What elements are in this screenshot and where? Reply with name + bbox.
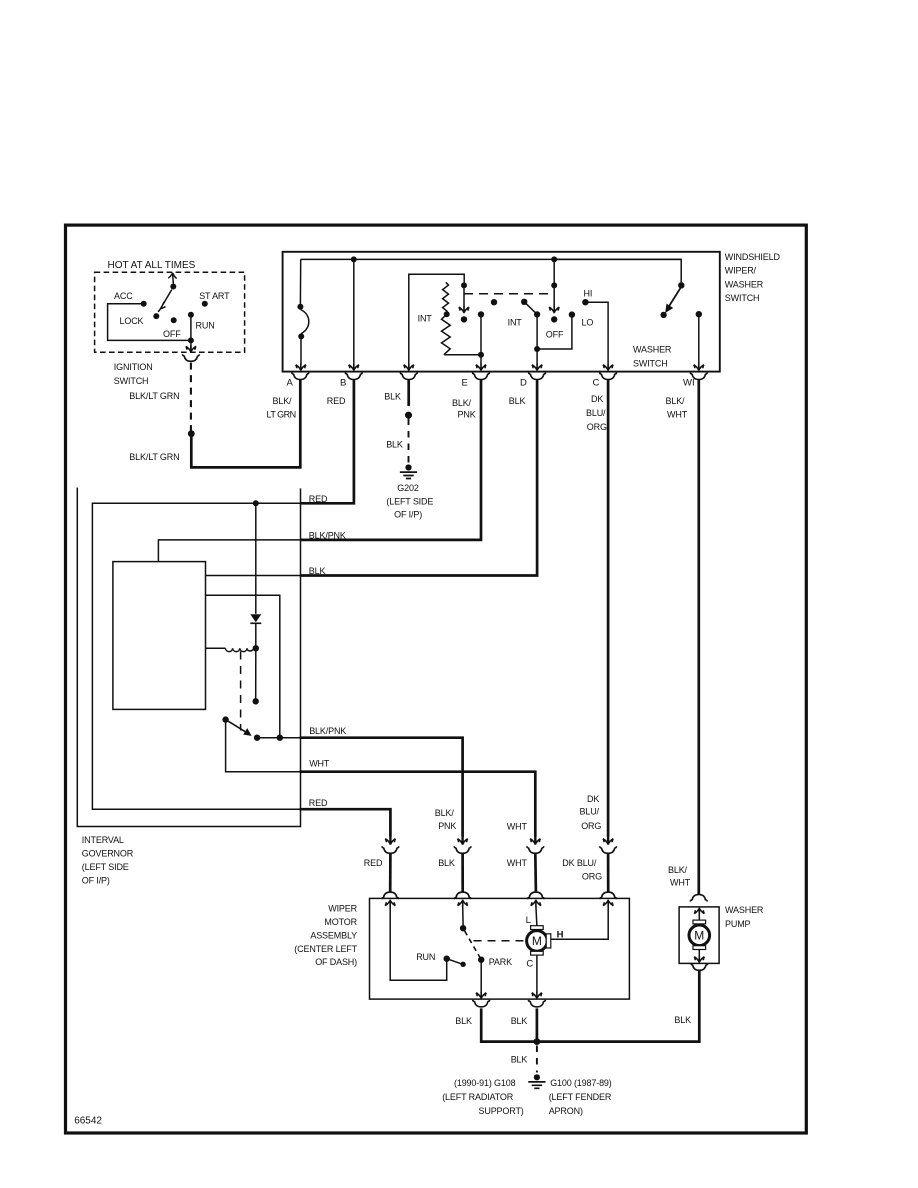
svg-text:BLU/: BLU/ <box>586 408 606 418</box>
contact dot E upper <box>478 311 484 317</box>
svg-text:M: M <box>694 929 704 943</box>
svg-text:BLK: BLK <box>511 1054 528 1064</box>
svg-text:SWITCH: SWITCH <box>633 358 668 368</box>
svg-text:(LEFT SIDE: (LEFT SIDE <box>386 496 433 506</box>
ignition contact START <box>202 301 208 307</box>
svg-text:BLK: BLK <box>455 1016 472 1026</box>
contact dot D <box>534 311 540 317</box>
ignition switch arm <box>158 273 177 312</box>
svg-text:OF DASH): OF DASH) <box>315 957 357 967</box>
svg-text:BLK/PNK: BLK/PNK <box>309 726 346 736</box>
contact arm INT-left <box>463 285 465 307</box>
svg-text:C: C <box>593 377 600 388</box>
dashed linkage governor <box>240 652 242 731</box>
svg-text:ST ART: ST ART <box>199 291 230 301</box>
svg-text:SWITCH: SWITCH <box>114 376 149 386</box>
svg-text:WHT: WHT <box>667 410 688 420</box>
wire arc to terminal A <box>300 336 302 364</box>
svg-text:LO: LO <box>582 317 594 327</box>
svg-text:(LEFT SIDE: (LEFT SIDE <box>82 862 129 872</box>
svg-text:BLK/LT GRN: BLK/LT GRN <box>129 452 179 462</box>
terminal E cup <box>472 373 489 380</box>
node rail-OFF <box>551 256 557 262</box>
svg-text:APRON): APRON) <box>549 1106 583 1116</box>
dashed linkage bus <box>464 293 554 295</box>
contact dot INT-left lower <box>461 316 467 322</box>
washer pump motor M2 <box>689 925 710 946</box>
svg-text:WHT: WHT <box>309 758 330 768</box>
node end <box>253 698 259 704</box>
svg-text:LOCK: LOCK <box>120 316 144 326</box>
svg-text:C: C <box>526 958 533 969</box>
contact A upper <box>299 259 301 304</box>
svg-text:(LEFT RADIATOR: (LEFT RADIATOR <box>442 1092 514 1102</box>
svg-text:RED: RED <box>364 858 383 868</box>
dashed mechanical link to motor <box>474 940 527 942</box>
svg-text:BLK/: BLK/ <box>435 808 455 818</box>
svg-text:L: L <box>526 915 531 926</box>
relay contact arm <box>222 716 228 722</box>
wire BLK/LT GRN to terminal A <box>191 380 300 468</box>
ground G100 <box>528 1074 545 1088</box>
svg-text:INTERVAL: INTERVAL <box>82 835 124 845</box>
node coil-diode <box>253 645 259 651</box>
wire RED terminal to RUN <box>390 906 447 980</box>
wire BLK to G202 <box>407 380 410 406</box>
ground bus BLK <box>481 971 699 1042</box>
splice BLK/LT GRN <box>188 430 195 437</box>
washer pump inlet arrow <box>694 908 704 915</box>
node RED-diode <box>253 500 259 506</box>
terminal RED motor (cap+arrow) <box>382 892 399 899</box>
resistor INT <box>442 282 451 354</box>
svg-text:GOVERNOR: GOVERNOR <box>82 848 134 858</box>
svg-text:WHT: WHT <box>507 858 528 868</box>
wire WHT to motor <box>534 853 537 892</box>
svg-text:INT: INT <box>508 317 523 327</box>
contact RUN <box>444 956 450 962</box>
svg-text:WASHER: WASHER <box>725 905 764 915</box>
svg-text:(CENTER LEFT: (CENTER LEFT <box>294 944 357 954</box>
diode CR1 <box>255 503 257 614</box>
wiper motor assembly box <box>370 898 630 999</box>
ignition contact RUN <box>188 312 194 318</box>
wire ACC to RUN feed <box>108 304 191 341</box>
svg-text:WASHER: WASHER <box>725 279 764 289</box>
terminal WI cup <box>690 373 707 380</box>
washer pump box <box>679 907 719 964</box>
wire governor feed vertical <box>206 595 280 738</box>
terminal WHT motor <box>527 892 544 899</box>
svg-text:BLK: BLK <box>384 392 401 402</box>
ignition contact OFF <box>171 317 177 323</box>
svg-text:BLK: BLK <box>511 1016 528 1026</box>
ignition output arrow through box <box>190 340 192 351</box>
svg-text:BLK/PNK: BLK/PNK <box>309 531 346 541</box>
switch arm INT-right <box>521 299 527 305</box>
svg-text:BLK: BLK <box>509 396 526 406</box>
svg-text:OFF: OFF <box>546 330 564 340</box>
svg-text:OF I/P): OF I/P) <box>82 875 110 885</box>
wire coil node down <box>255 648 257 698</box>
wire WI contact to terminal WI <box>698 314 700 364</box>
svg-text:BLK: BLK <box>674 1015 691 1025</box>
governor feed sub-box <box>409 274 464 371</box>
junction RUN feed corner <box>188 337 194 343</box>
wiper motor M1 <box>527 931 548 952</box>
svg-text:66542: 66542 <box>74 1115 102 1126</box>
wire LO to D <box>537 315 572 349</box>
wire WHT terminal to motor L <box>536 906 537 926</box>
svg-text:ORG: ORG <box>582 872 602 882</box>
wire RED from terminal B <box>301 380 354 504</box>
resistor tap node <box>444 311 450 317</box>
svg-text:B: B <box>340 377 346 388</box>
ignition contact ACC <box>141 301 147 307</box>
frame border <box>66 225 807 1133</box>
contact HI <box>582 299 588 305</box>
svg-text:BLK/LT GRN: BLK/LT GRN <box>129 391 179 401</box>
wire BLK terminal to park arm <box>462 906 464 925</box>
svg-text:HI: HI <box>584 288 593 298</box>
washer pump bottom cup <box>691 963 708 970</box>
svg-text:DK: DK <box>591 394 603 404</box>
wire RED to motor <box>389 853 392 892</box>
node D-LO <box>534 346 540 352</box>
connector WHT wire <box>527 836 544 853</box>
node E-resistor <box>478 352 484 358</box>
wire DK BLU/ORG to motor <box>607 853 610 892</box>
svg-text:A: A <box>287 377 294 388</box>
svg-text:M: M <box>532 934 542 948</box>
svg-text:ORG: ORG <box>581 821 601 831</box>
ignition output cup <box>182 354 199 361</box>
svg-text:ORG: ORG <box>587 422 607 432</box>
contact stub RUN <box>447 959 461 964</box>
svg-text:(1990-91) G108: (1990-91) G108 <box>454 1078 516 1088</box>
svg-text:ASSEMBLY: ASSEMBLY <box>310 930 357 940</box>
ignition contact LOCK <box>153 313 159 319</box>
svg-text:BLK/: BLK/ <box>273 396 293 406</box>
terminal G202 cup <box>400 373 417 380</box>
svg-text:WI: WI <box>683 377 695 388</box>
wire motor C to bottom <box>536 955 538 992</box>
svg-text:HOT AT ALL TIMES: HOT AT ALL TIMES <box>108 260 196 271</box>
switch arc contact A <box>301 310 309 334</box>
splice BLK <box>405 412 412 419</box>
svg-text:E: E <box>462 377 468 388</box>
washer switch arm <box>554 259 681 282</box>
svg-text:SWITCH: SWITCH <box>725 293 760 303</box>
contact LO <box>569 311 575 317</box>
connector DK BLU/ORG wire <box>600 836 617 853</box>
connector RED wire <box>382 836 399 853</box>
svg-text:BLK: BLK <box>386 440 403 450</box>
svg-text:RED: RED <box>309 494 328 504</box>
wire resistor bottom to E <box>444 354 481 356</box>
terminal C bottom cup <box>528 1000 545 1007</box>
node BLK/PNK-feed <box>277 735 283 741</box>
svg-text:BLK: BLK <box>309 566 326 576</box>
node sub-box <box>461 282 467 288</box>
svg-text:MOTOR: MOTOR <box>324 917 357 927</box>
svg-text:INT: INT <box>418 313 433 323</box>
svg-text:(LEFT FENDER: (LEFT FENDER <box>549 1092 612 1102</box>
svg-text:WINDSHIELD: WINDSHIELD <box>725 252 781 262</box>
node rail-B <box>351 256 357 262</box>
terminal DK BLU/ORG motor <box>600 892 617 899</box>
svg-text:PNK: PNK <box>438 821 456 831</box>
svg-text:RUN: RUN <box>196 320 215 330</box>
terminal B cup <box>345 373 362 380</box>
wire DK BLU/ORG from terminal C <box>607 380 610 837</box>
wire E contact to terminal E <box>480 314 482 364</box>
floating contact INT position <box>491 299 497 305</box>
washer pump cap <box>690 895 707 902</box>
terminal C cup <box>600 373 617 380</box>
terminal D cup <box>529 373 546 380</box>
svg-text:D: D <box>520 377 527 388</box>
wire BLK to motor <box>461 853 464 892</box>
svg-text:RED: RED <box>309 798 328 808</box>
terminal BLK motor <box>454 892 471 899</box>
node ground bus <box>534 1038 541 1045</box>
windshield wiper/washer switch box <box>283 252 720 372</box>
wire BLK/WHT from terminal WI <box>697 380 700 894</box>
svg-text:G100 (1987-89): G100 (1987-89) <box>550 1078 612 1088</box>
svg-text:DK: DK <box>587 794 599 804</box>
connector BLK/PNK wire <box>454 836 471 853</box>
contact dot WI <box>696 311 702 317</box>
wire D contact to terminal D <box>536 314 538 364</box>
svg-text:LT GRN: LT GRN <box>267 410 296 420</box>
governor module box <box>113 562 206 710</box>
wire BLK/PNK from terminal E <box>301 380 482 540</box>
svg-text:BLU/: BLU/ <box>580 807 600 817</box>
svg-text:BLK/: BLK/ <box>666 396 686 406</box>
svg-text:BLK/: BLK/ <box>452 398 472 408</box>
ground G202 <box>400 464 417 478</box>
contact dot BLK/PNK <box>254 735 260 741</box>
svg-text:PARK: PARK <box>489 957 512 967</box>
svg-text:BLK: BLK <box>438 858 455 868</box>
svg-text:RED: RED <box>327 396 346 406</box>
park switch arm (dashed) <box>465 931 480 957</box>
svg-text:OF I/P): OF I/P) <box>394 509 422 519</box>
relay coil <box>206 648 253 651</box>
svg-text:WASHER: WASHER <box>633 345 672 355</box>
svg-text:DK BLU/: DK BLU/ <box>562 858 597 868</box>
terminal PARK bottom cup <box>473 1000 490 1007</box>
svg-text:BLK/: BLK/ <box>668 865 688 875</box>
wire BLK from terminal D <box>301 380 538 576</box>
wire PARK to bottom <box>480 960 482 993</box>
svg-text:WHT: WHT <box>507 822 528 832</box>
svg-text:WIPER: WIPER <box>328 904 357 914</box>
svg-text:SUPPORT): SUPPORT) <box>479 1106 524 1116</box>
wire BLK/PNK lower <box>257 737 300 739</box>
wire BLK/LT GRN ignition dashed <box>190 363 192 431</box>
contact OFF <box>553 259 555 282</box>
svg-text:OFF: OFF <box>163 329 181 339</box>
svg-text:PNK: PNK <box>458 410 476 420</box>
washer pump outlet arrow <box>698 950 700 957</box>
svg-text:WIPER/: WIPER/ <box>725 266 757 276</box>
svg-text:RUN: RUN <box>416 952 435 962</box>
wire WHT lower <box>226 720 301 772</box>
wire motor H to DK BLU/ORG terminal <box>551 906 608 939</box>
terminal A cup <box>292 373 309 380</box>
svg-text:IGNITION: IGNITION <box>114 362 153 372</box>
wire HI to terminal C <box>585 302 608 364</box>
wire BLK dashed to G100 <box>536 1046 538 1073</box>
svg-text:PUMP: PUMP <box>725 919 751 929</box>
ignition switch dashed box <box>95 272 245 352</box>
contact dot washer <box>660 312 666 318</box>
svg-text:ACC: ACC <box>114 291 133 301</box>
switch feed rail <box>301 258 682 260</box>
svg-text:G202: G202 <box>397 483 419 493</box>
wire rail to terminal B <box>353 259 355 364</box>
interval governor outline <box>77 488 300 827</box>
svg-text:WHT: WHT <box>670 877 691 887</box>
